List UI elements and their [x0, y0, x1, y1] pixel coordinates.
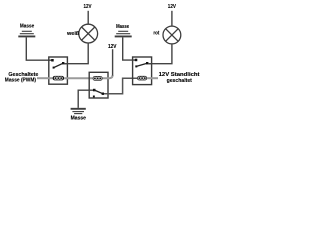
- svg-text:12V: 12V: [84, 4, 93, 10]
- svg-text:Masse: Masse: [116, 24, 129, 30]
- wire GND2 stem down and across to relay K2 switch input: [123, 37, 136, 60]
- svg-text:Masse: Masse: [20, 24, 34, 30]
- lamp E2 (rot) circle with X: [163, 26, 181, 44]
- ground symbol GND2 (stem down): [115, 31, 132, 36]
- svg-text:weiß: weiß: [66, 31, 79, 37]
- wire K1 pivot to box edge: [64, 63, 67, 65]
- wire K3 output right, up, to K2 coil: [104, 78, 137, 94]
- K2 switch pivot terminal: [146, 62, 148, 64]
- coil L1 (relay K1 coil): [53, 76, 65, 81]
- wire K2 pivot to box edge: [148, 63, 151, 65]
- wire riser up to 12V mid label: [112, 49, 114, 75]
- wire (gray) coil L1 to coil L2: [64, 77, 93, 79]
- lamp E1 (weiss) circle with X: [79, 24, 98, 43]
- K3 switch input terminal: [93, 89, 96, 92]
- wire coil L2 to 12V riser: [103, 75, 113, 78]
- svg-text:12V: 12V: [108, 44, 117, 50]
- wire red lamp down to K2 switch output: [149, 44, 172, 64]
- relay K2 box (right): [133, 57, 152, 85]
- svg-text:rot: rot: [153, 30, 159, 36]
- wire 12V down to white lamp: [87, 11, 89, 24]
- K3 alternate contact dot: [93, 96, 95, 98]
- K1 switch input terminal: [51, 59, 54, 62]
- wire 12V down to red lamp: [171, 11, 173, 26]
- K2 switch blade (open): [136, 63, 147, 66]
- svg-text:geschaltet: geschaltet: [167, 78, 193, 84]
- K3 switch blade (closed) to pivot: [94, 90, 103, 94]
- relay K1 box: [49, 57, 68, 84]
- wire GND3 up to K3 switch input: [78, 90, 93, 108]
- svg-text:12V: 12V: [168, 4, 177, 10]
- wire GND1 stem down and across to relay K1 switch input: [26, 37, 51, 60]
- svg-text:Masse: Masse: [71, 115, 87, 121]
- relay K3 box (middle): [89, 72, 108, 98]
- K2 switch input terminal: [135, 59, 138, 62]
- K1 switch pivot terminal: [62, 62, 64, 64]
- ground symbol GND1 (Masse top-left, stem down): [18, 31, 35, 36]
- wire PWM line (gray) from label to coil L1: [37, 77, 53, 79]
- coil L2 (relay K3 coil): [93, 76, 103, 81]
- wire coil L3 stub to label: [147, 77, 158, 79]
- K1 switch blade (open): [54, 63, 64, 67]
- svg-text:Masse (PWM): Masse (PWM): [5, 78, 37, 84]
- K3 switch pivot terminal: [102, 93, 104, 95]
- coil L3 (relay K2 coil): [137, 76, 147, 81]
- wire white lamp down to K1 switch output: [64, 43, 88, 64]
- ground symbol GND3 (bottom, stem up): [71, 109, 86, 114]
